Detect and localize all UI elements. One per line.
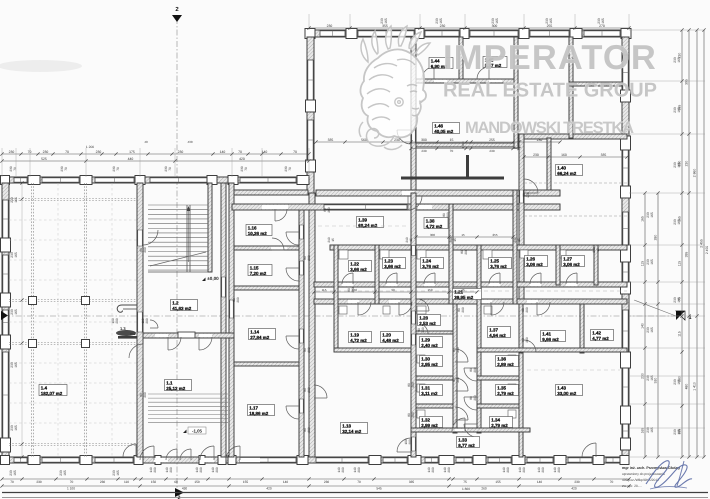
wall: top right room divider xyxy=(569,82,622,86)
wall: between 1.44 and 1.45 xyxy=(459,37,463,82)
room label 1.39 xyxy=(357,217,384,228)
svg-text:230: 230 xyxy=(685,161,689,167)
svg-text:200: 200 xyxy=(307,347,311,353)
svg-text:200: 200 xyxy=(525,307,529,313)
svg-text:525: 525 xyxy=(41,157,47,161)
svg-text:32,14 m2: 32,14 m2 xyxy=(342,429,362,434)
svg-text:1 800: 1 800 xyxy=(462,487,470,491)
svg-text:66,24 m2: 66,24 m2 xyxy=(557,171,577,176)
svg-text:230: 230 xyxy=(440,24,446,28)
svg-text:409 poz./Wlkp/OKK/2012: 409 poz./Wlkp/OKK/2012 xyxy=(622,478,659,482)
svg-text:200: 200 xyxy=(143,392,147,398)
svg-text:1.40: 1.40 xyxy=(557,166,566,171)
svg-text:4,77 m2: 4,77 m2 xyxy=(592,336,609,341)
door 1.18 south-east xyxy=(412,437,415,451)
room label 1.37 xyxy=(488,327,511,338)
svg-text:140: 140 xyxy=(220,150,226,154)
wall: corridor leg west x453 xyxy=(453,304,457,433)
svg-text:182,07 m2: 182,07 m2 xyxy=(41,391,63,396)
svg-text:165: 165 xyxy=(650,327,654,333)
svg-text:165: 165 xyxy=(116,470,120,476)
hall door south xyxy=(123,444,136,457)
room label 1.30 xyxy=(420,356,443,367)
dimension rows above top wing xyxy=(309,14,629,30)
svg-text:2 455: 2 455 xyxy=(705,246,709,254)
svg-text:2 860: 2 860 xyxy=(693,169,697,178)
svg-text:200: 200 xyxy=(447,467,451,473)
svg-text:70: 70 xyxy=(357,480,361,484)
wall: major x411 lower xyxy=(411,193,416,457)
wall: top wing interior x569 xyxy=(569,37,573,138)
svg-text:200: 200 xyxy=(473,395,477,401)
wall: north of 1.33 xyxy=(411,428,530,432)
svg-text:2,40 m2: 2,40 m2 xyxy=(421,343,438,348)
svg-text:3,76 m2: 3,76 m2 xyxy=(422,264,439,269)
svg-text:200: 200 xyxy=(236,297,240,303)
wall: 1.35/1.34 divider xyxy=(477,404,519,408)
svg-text:115: 115 xyxy=(678,261,682,267)
svg-text:70: 70 xyxy=(168,167,172,171)
svg-text:230: 230 xyxy=(489,149,494,153)
svg-text:115: 115 xyxy=(641,261,645,267)
svg-text:15: 15 xyxy=(450,138,454,142)
wall: above 1.46 row2 xyxy=(416,143,514,147)
svg-text:230: 230 xyxy=(36,480,42,484)
svg-text:200: 200 xyxy=(215,467,219,473)
svg-text:200: 200 xyxy=(506,467,510,473)
wall: north of small rooms row 1.22-1.27 xyxy=(330,245,627,250)
exterior wall: north of west hall xyxy=(2,177,309,183)
svg-text:300: 300 xyxy=(430,233,435,237)
svg-text:230: 230 xyxy=(533,153,539,157)
door 1.36 xyxy=(464,368,477,381)
svg-text:200: 200 xyxy=(411,412,415,418)
svg-text:4,48 m2: 4,48 m2 xyxy=(382,338,399,343)
svg-text:140: 140 xyxy=(283,480,289,484)
room label 1.40 xyxy=(556,165,583,176)
section line 1 (horizontal dash-dot) xyxy=(4,315,676,317)
svg-text:2: 2 xyxy=(178,495,181,499)
door 1.23 xyxy=(386,273,397,284)
bottom total line xyxy=(2,492,708,494)
wall: room 1.40 north xyxy=(519,134,627,139)
room label 1.44 xyxy=(429,58,453,69)
svg-text:430: 430 xyxy=(187,140,192,144)
svg-text:41,63 m2: 41,63 m2 xyxy=(172,306,192,311)
entry door c xyxy=(166,449,177,460)
svg-text:200: 200 xyxy=(327,207,331,213)
room label 1.19 xyxy=(349,332,372,343)
door 1.16 north xyxy=(275,205,288,209)
room label 1.46 xyxy=(433,123,460,134)
wall: hall / stair column divider xyxy=(137,183,143,457)
stair landing line xyxy=(148,271,208,273)
room label 1.38 xyxy=(424,218,448,229)
svg-text:3,06 m2: 3,06 m2 xyxy=(563,262,580,267)
section marker 1 right xyxy=(676,311,685,320)
svg-text:70: 70 xyxy=(13,167,17,171)
svg-text:1.25: 1.25 xyxy=(490,259,499,264)
svg-text:200: 200 xyxy=(464,249,468,255)
door 1.43 west xyxy=(524,340,536,352)
svg-text:155: 155 xyxy=(495,480,501,484)
svg-text:1.20: 1.20 xyxy=(382,333,391,338)
svg-text:200: 200 xyxy=(431,467,435,473)
interior dims top wing xyxy=(316,141,560,143)
svg-text:200: 200 xyxy=(411,382,415,388)
svg-text:1 410: 1 410 xyxy=(693,382,697,391)
svg-text:1.29: 1.29 xyxy=(421,338,430,343)
svg-text:200: 200 xyxy=(456,377,460,383)
door 1.2b xyxy=(199,337,212,350)
svg-text:420: 420 xyxy=(571,487,577,491)
stair direction arrow xyxy=(188,210,190,262)
svg-text:70: 70 xyxy=(450,149,454,153)
room label 1.17 xyxy=(248,405,275,416)
svg-text:70: 70 xyxy=(65,150,69,154)
svg-text:1.44: 1.44 xyxy=(431,59,440,64)
room label 1.35 xyxy=(496,385,519,396)
svg-text:1 200: 1 200 xyxy=(86,145,94,149)
wall: corridor leg east x477 xyxy=(477,245,481,433)
door 1.40 xyxy=(524,179,538,193)
door 1.31 xyxy=(455,378,468,391)
wall: 1.36/1.35 divider xyxy=(477,376,519,380)
svg-text:300: 300 xyxy=(492,24,498,28)
room label 1.36 xyxy=(496,356,519,367)
svg-text:4,94 m2: 4,94 m2 xyxy=(489,333,506,338)
svg-text:1 100: 1 100 xyxy=(67,487,75,491)
svg-text:15: 15 xyxy=(461,288,465,292)
room label 1.2 xyxy=(171,300,198,311)
svg-text:1.41: 1.41 xyxy=(542,332,551,337)
svg-text:1.17: 1.17 xyxy=(249,406,258,411)
svg-text:75: 75 xyxy=(463,480,467,484)
svg-text:165: 165 xyxy=(641,216,645,222)
wall: stair shaft upper xyxy=(208,183,212,272)
room label 1.18 xyxy=(341,423,368,434)
level marker -1,05 xyxy=(188,427,206,434)
door 1.22 xyxy=(342,273,353,284)
svg-text:150: 150 xyxy=(194,480,200,484)
wall: 1.37/1.41 divider lower xyxy=(519,304,523,353)
svg-text:3,66 m2: 3,66 m2 xyxy=(384,264,401,269)
room label 1.27 xyxy=(562,256,585,267)
door 1.45 xyxy=(477,67,489,79)
signature (blue ink) xyxy=(646,461,692,488)
svg-text:200: 200 xyxy=(199,467,203,473)
door 1.37 xyxy=(491,302,504,315)
svg-text:2,95 m2: 2,95 m2 xyxy=(421,362,438,367)
svg-text:33,00 m2: 33,00 m2 xyxy=(557,391,577,396)
door 1.46 north-east xyxy=(412,130,415,143)
room label 1.42 xyxy=(591,330,614,341)
wall: below 1.44/1.45 xyxy=(416,79,514,83)
room label 1.16 xyxy=(246,225,272,236)
wall: 1.14/1.17 divider xyxy=(234,362,299,366)
room label 1.43 xyxy=(556,385,583,396)
svg-text:3,06 m2: 3,06 m2 xyxy=(526,262,543,267)
svg-text:165: 165 xyxy=(650,212,654,218)
svg-text:165: 165 xyxy=(13,470,17,476)
door 1.15 xyxy=(286,268,299,281)
door 1.2a xyxy=(168,337,181,350)
svg-text:155: 155 xyxy=(243,480,249,484)
svg-text:70: 70 xyxy=(288,167,292,171)
svg-text:200: 200 xyxy=(143,247,147,253)
wall: 1.27 east xyxy=(594,245,598,285)
wall: x375 xyxy=(375,245,379,304)
svg-text:1.46: 1.46 xyxy=(434,124,443,129)
svg-text:230: 230 xyxy=(178,150,184,154)
exterior wall: east xyxy=(622,37,629,457)
svg-text:255: 255 xyxy=(547,24,553,28)
door 1.24 xyxy=(424,273,435,284)
svg-text:-1,05: -1,05 xyxy=(192,429,203,434)
room label 1.23 xyxy=(383,258,406,269)
svg-text:1.22: 1.22 xyxy=(350,262,359,267)
partition wall T in room 1.46 xyxy=(401,177,504,180)
exterior wall: south xyxy=(2,457,629,463)
svg-text:255: 255 xyxy=(489,138,495,142)
svg-text:2,99 m2: 2,99 m2 xyxy=(421,423,438,428)
svg-text:165: 165 xyxy=(677,162,681,168)
svg-text:1.34: 1.34 xyxy=(491,418,500,423)
door 1.28 xyxy=(417,299,429,311)
door 1.19 xyxy=(358,302,371,315)
room label 1.15 xyxy=(248,265,272,276)
svg-text:150: 150 xyxy=(151,480,157,484)
scan smudge xyxy=(0,60,82,72)
svg-text:165: 165 xyxy=(677,429,681,435)
fixtures in small rooms xyxy=(339,250,348,259)
svg-text:MANDOWSKI TRESTKA: MANDOWSKI TRESTKA xyxy=(465,119,634,137)
svg-text:165: 165 xyxy=(677,107,681,113)
stair break line xyxy=(150,252,206,266)
wall: top wing interior x514 xyxy=(514,37,518,148)
svg-text:140: 140 xyxy=(262,150,268,154)
svg-text:40,05 m2: 40,05 m2 xyxy=(434,129,454,134)
svg-text:230: 230 xyxy=(100,480,106,484)
interior dims 1.40 xyxy=(524,156,627,158)
wall: 1.28/1.29 divider xyxy=(416,331,453,334)
extension lines above hall xyxy=(2,148,309,177)
wall: room column 1.14 east xyxy=(299,204,304,457)
svg-text:1.36: 1.36 xyxy=(497,357,506,362)
svg-text:3,66 m2: 3,66 m2 xyxy=(350,267,367,272)
room 1.3 south dark wall xyxy=(118,336,137,339)
wall: x513 xyxy=(513,190,517,304)
svg-text:1.2: 1.2 xyxy=(172,301,179,306)
svg-text:200: 200 xyxy=(525,337,529,343)
svg-text:165: 165 xyxy=(677,219,681,225)
svg-text:10,26 m2: 10,26 m2 xyxy=(248,231,268,236)
svg-text:1.42: 1.42 xyxy=(592,331,601,336)
svg-text:150: 150 xyxy=(427,288,432,292)
svg-text:115: 115 xyxy=(322,288,327,292)
svg-text:200: 200 xyxy=(357,467,361,473)
svg-text:200: 200 xyxy=(145,318,149,324)
room label 1.26 xyxy=(525,256,548,267)
svg-text:70: 70 xyxy=(28,150,32,154)
svg-text:160: 160 xyxy=(561,153,567,157)
section marker 2 bottom xyxy=(175,488,184,497)
svg-text:mgr inż. arch. Przemysław Głoś: mgr inż. arch. Przemysław Głośny xyxy=(622,466,680,470)
svg-text:230: 230 xyxy=(43,150,49,154)
svg-text:335: 335 xyxy=(601,153,607,157)
door 1.16 from strip xyxy=(275,209,287,221)
svg-text:70: 70 xyxy=(116,167,120,171)
svg-text:1.23: 1.23 xyxy=(384,259,393,264)
interior dims corridor xyxy=(314,291,477,293)
wall: top wing interior x547 xyxy=(547,138,551,190)
svg-text:200: 200 xyxy=(522,467,526,473)
door 1.32 xyxy=(455,407,468,420)
svg-text:2 455: 2 455 xyxy=(700,239,704,248)
door 1.17 xyxy=(286,406,299,419)
svg-text:1.16: 1.16 xyxy=(248,226,257,231)
room label 1.28 xyxy=(418,315,441,326)
svg-text:70: 70 xyxy=(238,150,242,154)
wall: room 1.40 west xyxy=(519,134,524,304)
svg-text:420: 420 xyxy=(266,487,272,491)
svg-text:18,86 m2: 18,86 m2 xyxy=(249,411,269,416)
svg-text:200: 200 xyxy=(307,427,311,433)
svg-text:260: 260 xyxy=(481,487,487,491)
svg-text:40: 40 xyxy=(144,140,148,144)
svg-text:15: 15 xyxy=(453,238,457,242)
svg-text:7,20 m2: 7,20 m2 xyxy=(250,271,267,276)
svg-text:1.30: 1.30 xyxy=(421,357,430,362)
door 1.30 xyxy=(455,349,468,362)
door hall to 1.2 upper xyxy=(143,230,158,245)
room label 1.4 xyxy=(39,385,67,396)
svg-text:4,72 m2: 4,72 m2 xyxy=(426,224,443,229)
entry door d xyxy=(180,449,191,460)
svg-text:230: 230 xyxy=(327,24,333,28)
svg-text:2,79 m2: 2,79 m2 xyxy=(491,423,508,428)
door 1.25 xyxy=(489,273,500,284)
svg-text:480: 480 xyxy=(685,384,689,390)
door 1.2 to hall xyxy=(129,344,143,358)
door 1.41 xyxy=(537,302,550,315)
svg-text:uprawniony do projektowania: uprawniony do projektowania xyxy=(622,472,665,476)
corridor guide dashes xyxy=(316,290,627,292)
room label 1.45 xyxy=(483,57,507,68)
svg-text:255: 255 xyxy=(492,233,497,237)
door near 1.3 xyxy=(150,320,158,328)
wall: rooms 1.39/1.18 west xyxy=(309,193,315,457)
svg-text:200: 200 xyxy=(446,212,450,218)
svg-text:230: 230 xyxy=(9,150,15,154)
room label 1.21 xyxy=(453,289,482,300)
svg-text:15: 15 xyxy=(409,238,413,242)
svg-text:IMPERATOR: IMPERATOR xyxy=(443,39,657,77)
room label 1.34 xyxy=(490,417,513,428)
wall: top wing interior x411 xyxy=(411,37,416,190)
svg-text:15: 15 xyxy=(517,238,521,242)
wall: 1.16/1.15 divider xyxy=(234,246,299,250)
wall: x334 xyxy=(334,245,338,352)
svg-text:200: 200 xyxy=(526,192,530,198)
door 1.44 xyxy=(422,67,434,79)
svg-text:1.4: 1.4 xyxy=(41,386,48,391)
door 1.43 south xyxy=(582,443,596,457)
svg-text:165: 165 xyxy=(14,197,18,203)
svg-text:1.38: 1.38 xyxy=(426,219,435,224)
svg-text:1.37: 1.37 xyxy=(489,328,498,333)
room label 1.32 xyxy=(420,417,443,428)
wall: 1.2 / 1.1 divider with doors xyxy=(143,333,234,338)
svg-text:165: 165 xyxy=(14,425,18,431)
svg-text:±0,00: ±0,00 xyxy=(207,276,219,281)
svg-text:4,72 m2: 4,72 m2 xyxy=(350,338,367,343)
wall: 1.30/1.31 divider xyxy=(416,376,453,380)
room label 1.33 xyxy=(457,437,480,448)
svg-text:200: 200 xyxy=(541,467,545,473)
watermark logo: emperor head xyxy=(359,26,430,149)
dimension columns right xyxy=(644,193,646,457)
door south near 1.17 xyxy=(226,446,240,460)
svg-text:110: 110 xyxy=(124,480,129,484)
room label 1.25 xyxy=(489,258,512,269)
svg-text:1.26: 1.26 xyxy=(526,257,535,262)
door 1.18 xyxy=(314,385,327,398)
svg-text:165: 165 xyxy=(677,297,681,303)
svg-text:70: 70 xyxy=(293,150,297,154)
svg-text:1.33: 1.33 xyxy=(458,438,467,443)
door 1.16/1.15 interconnect xyxy=(271,247,287,250)
svg-text:280: 280 xyxy=(654,235,658,241)
svg-text:165: 165 xyxy=(677,379,681,385)
svg-text:1.35: 1.35 xyxy=(497,386,506,391)
exterior wall: top wing west xyxy=(307,37,314,193)
svg-text:70: 70 xyxy=(70,480,74,484)
wall: strip north x234-308 xyxy=(234,190,308,195)
svg-text:200: 200 xyxy=(307,387,311,393)
svg-text:70: 70 xyxy=(610,480,614,484)
entry door b xyxy=(200,446,214,460)
svg-text:430: 430 xyxy=(182,487,188,491)
svg-text:175: 175 xyxy=(129,150,135,154)
svg-text:200: 200 xyxy=(115,318,119,324)
svg-text:420: 420 xyxy=(239,157,245,161)
svg-text:165: 165 xyxy=(63,470,67,476)
svg-text:70: 70 xyxy=(244,167,248,171)
svg-text:200: 200 xyxy=(307,255,311,261)
svg-text:355: 355 xyxy=(382,24,388,28)
room label 1.14 xyxy=(249,329,276,340)
svg-text:15: 15 xyxy=(596,248,600,252)
svg-text:395: 395 xyxy=(685,79,689,85)
svg-text:1.18: 1.18 xyxy=(342,424,351,429)
door 1.33 xyxy=(452,418,465,431)
wall: north of rooms row 1.39 xyxy=(232,204,560,210)
wall: 1.15/1.14 divider xyxy=(234,286,299,290)
svg-text:68,24 m2: 68,24 m2 xyxy=(358,223,378,228)
svg-text:15: 15 xyxy=(461,233,465,237)
svg-text:440: 440 xyxy=(128,157,134,161)
door 1.46 xyxy=(397,130,411,144)
exterior wall: top wing north xyxy=(307,30,629,37)
wall: 1.26/1.27 divider xyxy=(556,245,560,285)
svg-text:230: 230 xyxy=(96,150,102,154)
svg-text:REAL ESTATE GROUP: REAL ESTATE GROUP xyxy=(443,80,657,102)
svg-text:200: 200 xyxy=(153,467,157,473)
svg-text:27,84 m2: 27,84 m2 xyxy=(250,335,270,340)
svg-text:9,66 m2: 9,66 m2 xyxy=(542,337,559,342)
svg-text:70: 70 xyxy=(10,480,14,484)
